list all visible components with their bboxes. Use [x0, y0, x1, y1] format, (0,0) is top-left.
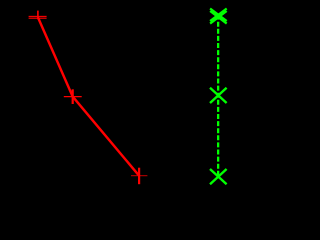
red marker P2 vertical arm — [72, 89, 74, 104]
red marker P1 horizontal arm B — [29, 18, 47, 19]
red marker P2 horizontal arm — [64, 96, 82, 98]
green dashed series line — [217, 15, 219, 177]
green marker M3 X — [210, 169, 227, 184]
red marker P3 horizontal arm — [131, 175, 147, 177]
red marker P3 vertical arm — [138, 168, 140, 185]
green marker M1 X (upper) — [210, 9, 227, 22]
red marker P1 horizontal arm A — [29, 16, 47, 17]
red series line — [38, 17, 139, 176]
green marker M1b X (lower, offset) — [210, 11, 227, 24]
red marker P1 vertical arm — [37, 11, 39, 20]
green marker M2 X — [210, 88, 227, 103]
